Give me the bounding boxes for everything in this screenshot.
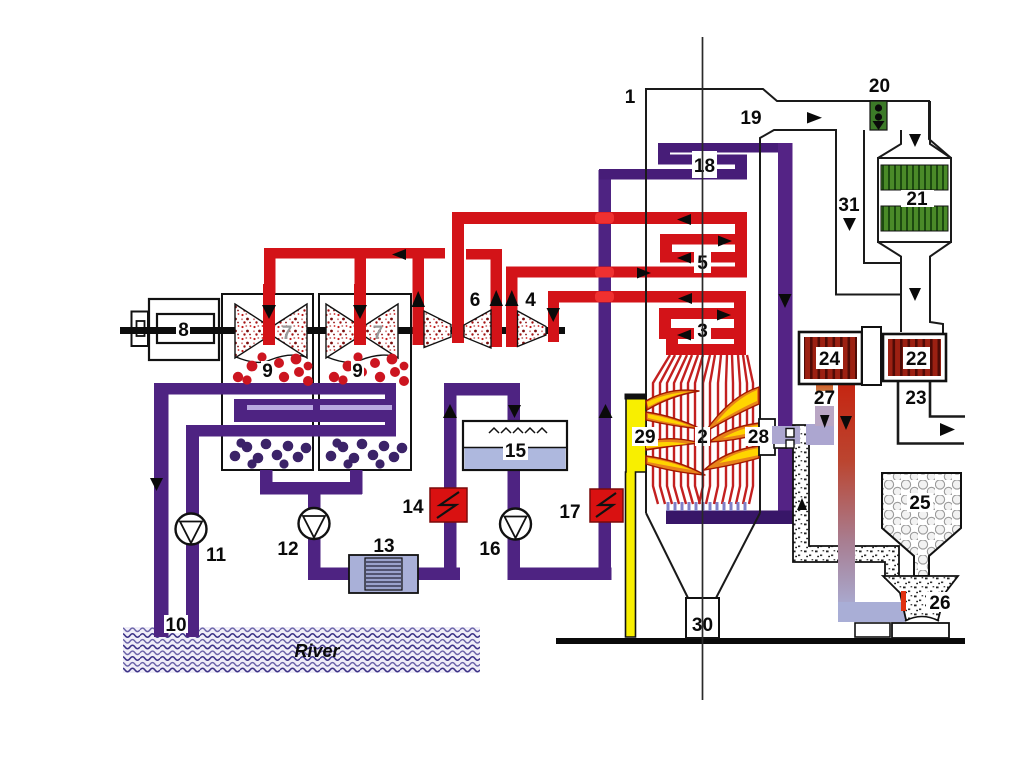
svg-text:24: 24 (819, 349, 841, 370)
svg-text:15: 15 (505, 441, 527, 462)
svg-text:11: 11 (206, 545, 227, 566)
svg-text:22: 22 (906, 349, 927, 370)
svg-text:7: 7 (373, 323, 384, 344)
svg-text:26: 26 (929, 593, 950, 614)
svg-text:23: 23 (905, 388, 926, 409)
svg-text:9: 9 (352, 361, 363, 382)
svg-text:29: 29 (634, 427, 655, 448)
svg-text:4: 4 (525, 290, 536, 311)
svg-text:7: 7 (282, 323, 293, 344)
svg-text:25: 25 (909, 493, 931, 514)
svg-text:27: 27 (814, 388, 835, 409)
svg-text:1: 1 (625, 87, 636, 108)
svg-text:9: 9 (262, 361, 273, 382)
svg-text:17: 17 (559, 502, 580, 523)
svg-text:21: 21 (906, 189, 928, 210)
svg-text:River: River (294, 641, 340, 661)
svg-text:14: 14 (402, 497, 424, 518)
svg-text:13: 13 (373, 536, 394, 557)
svg-text:31: 31 (838, 195, 860, 216)
svg-text:12: 12 (277, 539, 298, 560)
svg-text:20: 20 (869, 76, 890, 97)
svg-text:10: 10 (165, 615, 186, 636)
svg-text:16: 16 (479, 539, 500, 560)
svg-text:19: 19 (740, 108, 761, 129)
svg-text:18: 18 (694, 156, 715, 177)
svg-text:6: 6 (470, 290, 481, 311)
svg-text:8: 8 (178, 320, 189, 341)
svg-text:28: 28 (748, 427, 769, 448)
